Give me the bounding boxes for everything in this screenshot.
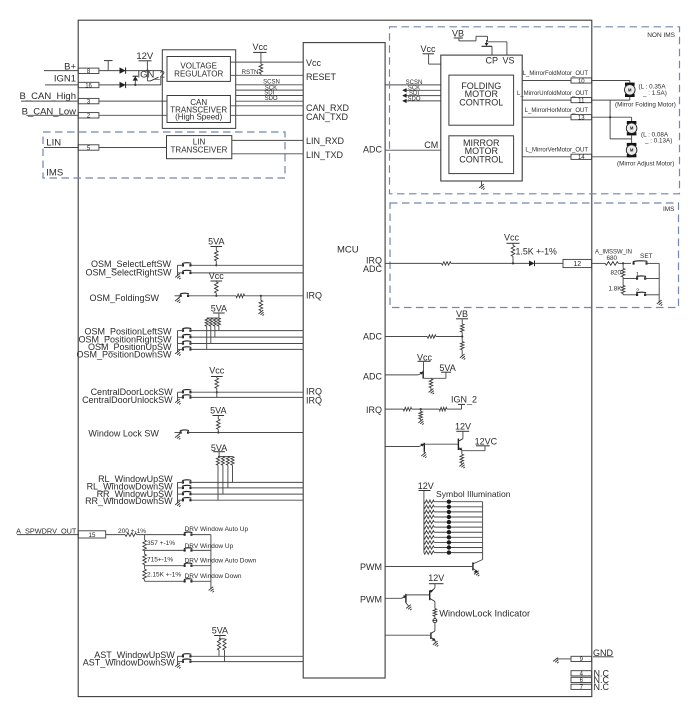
wire LIN_TXD	[232, 153, 303, 155]
wire B+ external stub	[44, 70, 78, 72]
ground (rear windows)	[175, 501, 182, 508]
wire folding gnd tail	[177, 296, 180, 300]
wire select ground bracket	[178, 265, 183, 275]
LED D12 row 8	[447, 535, 451, 539]
wire pullup 1 to line	[206, 326, 208, 349]
resistor indicator	[433, 609, 437, 617]
switch IGN_2	[147, 71, 160, 85]
switch DRV Window Up	[184, 548, 193, 552]
svg-text:14: 14	[578, 155, 585, 161]
LIN transceiver U4 box	[167, 136, 232, 159]
svg-text:Vcc: Vcc	[209, 365, 225, 375]
junction folding shunt	[260, 295, 262, 297]
wire B+ to regulator	[99, 70, 162, 72]
wire branch4 to rail	[191, 580, 211, 582]
Vcc bar (IMS)	[507, 242, 520, 244]
wire A_SPWDRV stub	[17, 534, 79, 536]
svg-text:ADC: ADC	[363, 145, 383, 155]
wire SCSN right	[385, 84, 441, 86]
ground (Q12)	[433, 641, 440, 648]
wire SCSN left	[236, 84, 304, 86]
wire IMS main line b	[451, 262, 529, 264]
12V bar (Q8)	[456, 430, 469, 432]
wire pin15 to R200	[106, 534, 125, 536]
diode D2 on IGN1 line	[120, 82, 126, 88]
switch AST_WindowDownSW	[182, 659, 192, 663]
wire branch2	[145, 549, 185, 551]
wire PWM to Q9 base	[385, 566, 473, 568]
svg-text:680: 680	[607, 255, 618, 262]
wire CAN_TXD	[230, 114, 303, 116]
wire SCK left	[236, 89, 304, 91]
resistor IRQ series 2	[439, 407, 447, 411]
junction IRQ divider	[420, 408, 422, 410]
resistor LED row 6	[424, 525, 434, 528]
svg-text:REGULATOR: REGULATOR	[174, 69, 223, 78]
resistor VB lower	[460, 342, 464, 350]
ladder rail right	[210, 535, 212, 589]
ground (Q7)	[421, 452, 428, 459]
CAN transceiver text	[170, 98, 227, 121]
ground (OSM folding shunt)	[259, 310, 266, 317]
wire CentralDoorLockSW	[190, 391, 303, 393]
mirror motor control text	[459, 138, 503, 165]
FET Q6 high-side switch	[476, 36, 492, 46]
ground (OSM select)	[175, 274, 182, 281]
wire motor1 bottom lead	[629, 97, 631, 100]
wire 5VA stem (Q5)	[445, 372, 447, 378]
resistor OSM position pullup 3	[213, 318, 216, 326]
wire IGN_2 stem	[461, 404, 463, 409]
svg-text:RR_WindowDownSW: RR_WindowDownSW	[85, 496, 173, 506]
ground (Q8)	[459, 463, 466, 470]
LED D10 row 6	[447, 525, 451, 529]
LED D13 row 9	[447, 540, 451, 544]
wire AST pullup 1 to line	[218, 650, 220, 656]
svg-text:N.C: N.C	[594, 682, 610, 692]
switch RL_WindowUpSW	[182, 480, 192, 484]
wire folding shunt down	[260, 296, 262, 301]
power block outer box	[162, 50, 235, 129]
svg-text:(High Speed): (High Speed)	[175, 113, 222, 122]
switch RR_WindowDownSW	[182, 498, 192, 502]
Vcc bar (motor ctrl)	[423, 53, 435, 55]
pin 11	[571, 98, 592, 105]
wire rear pullup 2 to line	[222, 465, 224, 494]
wire pullup to line (OSM select)	[215, 261, 217, 265]
wire rear bracket stub 2	[178, 487, 183, 489]
wire SET rail	[658, 263, 660, 302]
wire Vcc regulator to MCU	[230, 61, 303, 63]
diode D4 (IMS)	[529, 261, 535, 267]
svg-text:12VC: 12VC	[475, 437, 498, 447]
svg-text:LIN: LIN	[46, 138, 61, 149]
resistor ADC series (VB)	[427, 335, 436, 338]
wire pin14 to motor3	[592, 156, 632, 158]
wire Q7 to Q8 base	[424, 443, 458, 445]
wire Window Lock SW	[188, 432, 303, 434]
wire rear pullup 4 to line	[232, 465, 234, 482]
terminal T on B+	[104, 61, 113, 71]
wire Q8 emitter down	[461, 449, 463, 452]
12VC bar	[476, 445, 490, 447]
wire CAN_RXD	[230, 105, 303, 107]
ground (OSM position)	[175, 350, 182, 357]
wire diode to pin12	[535, 262, 564, 264]
wire Q12 emitter to gnd	[434, 640, 436, 643]
wire pullup 4 to line	[218, 326, 220, 330]
svg-text:RSTN: RSTN	[242, 69, 259, 76]
wire OSM_SelectLeftSW	[190, 264, 303, 266]
transistor Q5	[418, 371, 446, 379]
ground (Q5)	[429, 389, 436, 396]
wire ADC-VB line a	[385, 336, 427, 338]
svg-text:IRQ: IRQ	[306, 290, 322, 300]
outer schematic frame	[78, 20, 592, 696]
svg-text:12V: 12V	[418, 481, 434, 491]
wire branch4	[145, 580, 185, 582]
svg-text:LIN_RXD: LIN_RXD	[306, 136, 345, 146]
wire rear pullup 3 to line	[227, 465, 229, 488]
junction OSM select	[215, 264, 217, 266]
resistor AST pullup 1	[217, 639, 220, 650]
svg-text:M: M	[630, 126, 634, 131]
wire common branch down	[610, 100, 632, 139]
svg-text:CONTROL: CONTROL	[459, 98, 503, 108]
wire bracket stub 3	[178, 343, 183, 345]
junction VB divider	[461, 335, 463, 337]
wire branch1 to rail	[191, 534, 211, 536]
transistor Q7	[419, 443, 424, 454]
folding motor control box	[449, 75, 514, 125]
svg-text:NON IMS: NON IMS	[647, 32, 675, 39]
switch OSM_SelectRightSW	[182, 270, 192, 274]
wire OSM_PositionRightSW	[190, 336, 303, 338]
12V bar (illumination)	[419, 490, 431, 492]
wire rear bracket stub 1	[178, 481, 183, 483]
wire IGN1 external stub	[45, 84, 78, 86]
wire R to gnd (Q8)	[461, 463, 463, 465]
wire LED row 2	[434, 506, 482, 508]
junction central door	[216, 391, 218, 393]
transistor Q12	[431, 631, 436, 641]
wire SCK right	[402, 88, 441, 92]
5VA supply (AST windows)	[212, 625, 228, 638]
svg-text:357 +-1%: 357 +-1%	[147, 540, 175, 547]
wire OSM_FoldingSW b	[245, 295, 304, 297]
LED D14 row 10	[447, 545, 451, 549]
svg-text:VB: VB	[452, 29, 464, 39]
wire OSM_PositionUpSW	[190, 343, 303, 345]
wire FET to CP	[491, 46, 493, 55]
transistor Q9	[473, 562, 478, 573]
wire IRQ node down	[420, 409, 422, 411]
wire LED row 10	[434, 547, 482, 549]
wire emitter to 12VC	[462, 450, 485, 452]
diode D1 on B+ line	[120, 67, 126, 73]
svg-text:ADC: ADC	[363, 331, 383, 341]
wire SDI right	[402, 93, 441, 97]
svg-text:CAN_TXD: CAN_TXD	[306, 112, 349, 122]
svg-text:5VA: 5VA	[439, 363, 455, 373]
motor control block outer box	[441, 55, 522, 181]
wire RL_WindowDownSW	[190, 487, 303, 489]
CAN transceiver U3 box	[167, 96, 230, 123]
svg-text:16: 16	[85, 83, 92, 89]
svg-text:DRV Window Auto Down: DRV Window Auto Down	[185, 558, 257, 565]
MCU U1 box	[303, 43, 385, 678]
wire 1.8K to line2	[622, 294, 624, 295]
svg-text:(Mirror Folding Motor): (Mirror Folding Motor)	[615, 102, 676, 109]
LED bank right rail	[482, 502, 484, 560]
pin 16	[78, 82, 99, 89]
svg-text:TRANSCEIVER: TRANSCEIVER	[171, 145, 228, 154]
wire FET to VS	[488, 42, 507, 55]
wire RR_WindowDownSW	[190, 499, 303, 501]
resistor 1.8K	[621, 285, 625, 293]
wire ADC-VB line b	[436, 336, 462, 338]
wire folding stub	[175, 295, 181, 297]
svg-text:WindowLock Indicator: WindowLock Indicator	[439, 609, 530, 619]
wire 1.5K to line	[512, 256, 514, 263]
junction common/hor	[609, 116, 611, 118]
wire branch2 to rail	[191, 549, 211, 551]
wire PWM2 to Q12 base	[385, 634, 431, 636]
svg-text:10: 10	[578, 79, 585, 85]
svg-text:6: 6	[580, 678, 584, 684]
resistor rear window pullup 1	[216, 457, 219, 466]
switch CentralDoorUnlockSW	[182, 395, 192, 399]
resistor Q5 base	[429, 379, 433, 388]
wire pin11 to motor1 bottom	[592, 99, 630, 101]
wire node down to 820	[622, 263, 624, 268]
wire R to LED	[434, 616, 436, 618]
pin 3	[78, 98, 99, 105]
wire branch3 to rail	[191, 565, 211, 567]
5VA supply (OSM position)	[211, 304, 227, 319]
wire LED row 7	[434, 531, 482, 533]
Vcc supply (central door)	[209, 365, 225, 378]
wire AST ground bracket	[178, 656, 183, 665]
wire IRQ shunt to gnd	[420, 419, 422, 421]
switch SET	[633, 261, 648, 265]
wire VB to FET	[459, 40, 476, 42]
resistor OSM folding series	[236, 294, 245, 298]
svg-text:CentralDoorUnlockSW: CentralDoorUnlockSW	[82, 395, 173, 405]
motor M2 (mirror horizontal)	[626, 121, 637, 135]
svg-text:8: 8	[87, 69, 91, 75]
svg-text:CP: CP	[486, 55, 499, 65]
ground (window lock)	[175, 434, 182, 441]
svg-text:ADC: ADC	[363, 372, 383, 382]
svg-text:7: 7	[580, 685, 584, 691]
pin 10	[571, 78, 592, 85]
svg-text:(Mirror Adjust Motor): (Mirror Adjust Motor)	[617, 161, 674, 168]
svg-text:_ : 1.5A): _ : 1.5A)	[642, 90, 667, 97]
svg-text:15: 15	[89, 532, 96, 539]
resistor LED row 11	[424, 551, 434, 554]
wire resistor to RSTN line	[260, 74, 262, 76]
resistor LED row 2	[424, 505, 434, 508]
pin 6	[571, 677, 592, 684]
wire B_CAN_High to CAN transceiver	[99, 100, 167, 102]
LED D9 row 5	[447, 520, 451, 524]
wire LED row 6	[434, 526, 482, 528]
AST pullup bar	[219, 638, 225, 640]
wire IMS main line a	[385, 262, 441, 264]
svg-text:5VA: 5VA	[208, 236, 224, 246]
svg-text:CONTROL: CONTROL	[459, 154, 503, 164]
wire Vcc stem (IMS)	[512, 243, 514, 245]
wire LED row 5	[434, 521, 482, 523]
svg-text:M: M	[630, 148, 634, 153]
wire base node to R	[430, 377, 432, 380]
switch AST_WindowUpSW	[182, 654, 192, 658]
ground (AST windows)	[175, 663, 182, 670]
svg-text:Symbol Illumination: Symbol Illumination	[436, 489, 511, 499]
svg-text:L_MirrorFoldMotor_OUT: L_MirrorFoldMotor_OUT	[523, 71, 589, 77]
VB bar (divider)	[456, 318, 468, 320]
svg-text:2: 2	[87, 114, 91, 120]
resistor LED row 8	[424, 536, 434, 539]
LIN transceiver text	[171, 137, 228, 154]
5VA bar (Q5)	[441, 371, 451, 373]
ground (pin9)	[553, 658, 560, 665]
svg-text:OSM_PositionDownSW: OSM_PositionDownSW	[76, 349, 172, 359]
wire SDI left	[236, 95, 304, 97]
wire PWM to Q10	[385, 597, 401, 599]
wire IGN1 to switch	[99, 84, 161, 86]
wire AST pullup 2 to line	[224, 650, 226, 662]
svg-text:L_MirrorVerMotor_OUT: L_MirrorVerMotor_OUT	[525, 148, 588, 154]
OSM position pullup bar	[207, 317, 219, 319]
wire pin12 to 680	[592, 262, 606, 264]
ladder rail left	[144, 535, 146, 541]
wire CentralDoorUnlockSW	[190, 396, 303, 398]
wire Vcc to motor ctrl box	[429, 54, 441, 64]
wire CM	[385, 149, 441, 151]
resistor VB upper	[460, 324, 464, 332]
voltage regulator U2 box	[167, 57, 230, 82]
ground (Q10)	[406, 605, 413, 612]
wire B_CAN_Low	[27, 114, 79, 116]
wire SET to rail	[647, 262, 660, 264]
transistor Q8	[458, 439, 463, 451]
resistor LED row 10	[424, 546, 434, 549]
wire RSTN to MCU RESET	[230, 74, 303, 76]
wire pullup to lines (central door)	[216, 388, 218, 397]
wire LED row 9	[434, 541, 482, 543]
resistor IMS series	[442, 262, 452, 265]
wire 12V stem (indicator)	[434, 584, 436, 588]
junction window lock	[217, 431, 219, 433]
wire rear bracket stub 3	[178, 493, 183, 495]
wire 12V stem (illumination)	[423, 491, 425, 502]
wire position ground bracket	[177, 331, 179, 352]
switch OSM_PositionRightSW	[182, 334, 192, 338]
transistor Q11	[430, 588, 435, 601]
svg-text:Vcc: Vcc	[420, 44, 436, 54]
wire VB upper to node	[461, 332, 463, 336]
IMS dashed box	[390, 203, 679, 308]
svg-text:SET: SET	[640, 253, 653, 260]
resistor rear window pullup 4	[231, 457, 234, 466]
zener D3 to IGN1	[133, 76, 138, 85]
pin 13	[571, 115, 592, 122]
wire rail to Q9 collector	[473, 560, 482, 564]
svg-text:B_CAN_High: B_CAN_High	[20, 91, 77, 102]
svg-text:LIN_TXD: LIN_TXD	[306, 150, 344, 160]
wire pin9 to gnd	[557, 658, 571, 660]
resistor IRQ series 1	[403, 407, 412, 411]
wire AST_WindowDownSW	[190, 661, 303, 663]
wire LED row 8	[434, 536, 482, 538]
resistor LED row 7	[424, 531, 434, 534]
wire node down to 1.8K	[622, 279, 624, 286]
svg-text:5VA: 5VA	[212, 625, 228, 635]
wire set line1	[623, 278, 637, 280]
GND underline	[593, 656, 614, 658]
svg-text:1.8K: 1.8K	[609, 286, 623, 293]
LED D15 row 11	[447, 550, 451, 554]
wire pullup 3 to line	[214, 326, 216, 337]
pin 9	[571, 656, 592, 663]
svg-text:A_SPWDRV_OUT: A_SPWDRV_OUT	[16, 526, 77, 535]
wire pin10 to motor1	[592, 80, 630, 82]
wire Vcc to Q5 collector	[423, 361, 425, 371]
wire emitter node to R	[461, 451, 463, 455]
resistor LED row 4	[424, 515, 434, 518]
svg-text:DRV Window Down: DRV Window Down	[185, 573, 242, 580]
mirror motor control box	[449, 136, 514, 174]
wire rear pullup 1 to line	[217, 465, 219, 500]
wire VB stem	[458, 38, 460, 41]
resistor LED row 3	[424, 510, 434, 513]
svg-text:5VA: 5VA	[211, 304, 227, 314]
wire window lock stub	[175, 432, 181, 434]
svg-text:VB: VB	[456, 309, 468, 319]
resistor LED row 9	[424, 541, 434, 544]
wire door ground bracket	[178, 392, 183, 401]
resistor RSTN pullup	[259, 64, 263, 74]
wire 12VC stem	[484, 446, 486, 451]
wire LED row 11	[434, 552, 482, 554]
wire IRQ line c	[447, 408, 462, 410]
wire branch3	[145, 565, 185, 567]
wire LED row 3	[434, 511, 482, 513]
wire FoldMotor out	[522, 80, 571, 82]
svg-text:IRQ: IRQ	[306, 395, 322, 405]
svg-text:ADC: ADC	[363, 264, 383, 274]
pin 14	[571, 154, 592, 161]
wire LIN to LIN transceiver	[99, 147, 167, 149]
svg-text:4: 4	[580, 672, 584, 678]
switch RR_WindowUpSW	[182, 491, 192, 495]
switch OSM_PositionUpSW	[182, 341, 192, 345]
pin 2	[78, 113, 99, 120]
LED D11 row 7	[447, 530, 451, 534]
wire IRQ line b	[412, 408, 440, 410]
svg-text:Vcc: Vcc	[252, 42, 268, 52]
junction zener/IGN1	[134, 84, 136, 86]
5VA supply (window lock)	[210, 406, 226, 419]
12V supply bar	[139, 60, 152, 62]
wire B_CAN_Low to CAN transceiver	[99, 114, 167, 116]
wire pullup 2 to line	[210, 326, 212, 343]
Vcc supply (OSM folding)	[209, 271, 225, 282]
svg-text:M: M	[628, 87, 632, 92]
svg-text:IRQ: IRQ	[366, 405, 382, 415]
